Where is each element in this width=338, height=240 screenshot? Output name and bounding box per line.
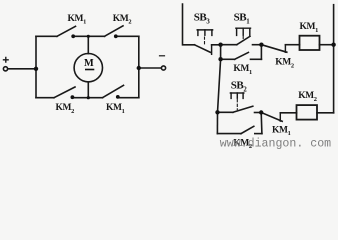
svg-text:M: M <box>84 58 94 69</box>
svg-text:www.diangon. com: www.diangon. com <box>220 137 331 150</box>
